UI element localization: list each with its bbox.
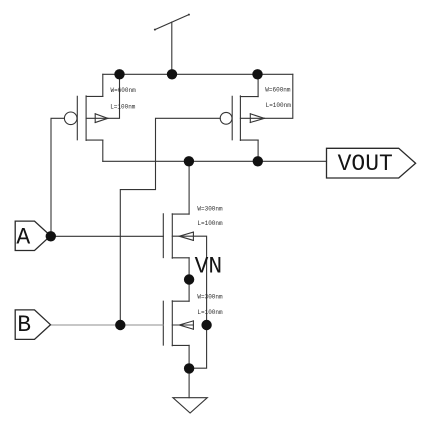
wire M1 drain drop xyxy=(102,140,104,161)
wire VDD rail xyxy=(103,73,293,75)
svg-text:L=100nm: L=100nm xyxy=(197,309,223,316)
port A xyxy=(15,221,50,250)
transistor M2 (PMOS) xyxy=(220,96,264,140)
wire node A riser to M1 gate xyxy=(51,118,64,236)
ground node dot xyxy=(184,363,194,373)
wire node B horizontal to M4 gate xyxy=(51,324,164,326)
wire M2 drain drop xyxy=(257,140,259,161)
ground xyxy=(173,398,207,413)
svg-text:A: A xyxy=(16,225,30,251)
svg-text:L=100nm: L=100nm xyxy=(266,102,292,109)
svg-text:L=100nm: L=100nm xyxy=(197,220,223,227)
wire M4 source drop xyxy=(188,345,190,368)
port B xyxy=(15,310,50,340)
svg-text:W=600nm: W=600nm xyxy=(265,86,291,93)
wire node B riser to M2 gate xyxy=(120,118,220,325)
svg-text:VN: VN xyxy=(195,254,223,280)
svg-text:W=300nm: W=300nm xyxy=(197,294,223,301)
node A dot xyxy=(46,231,56,241)
wire M3 source to M4 drain (node VN) xyxy=(188,258,190,301)
M4 bulk dot xyxy=(201,320,211,330)
transistor M1 (PMOS) xyxy=(64,96,107,140)
wire M2 source riser xyxy=(257,74,259,96)
wire rail left drop to M1 source xyxy=(102,74,104,96)
svg-text:L=100nm: L=100nm xyxy=(110,104,136,111)
VDD rail dot 1 xyxy=(114,69,124,79)
wire M3 drain riser to output xyxy=(188,161,190,214)
power VDD symbol xyxy=(154,14,190,75)
wire ground lead xyxy=(188,368,190,398)
port VOUT xyxy=(327,148,416,178)
output rail dot right xyxy=(253,156,263,166)
output rail dot left xyxy=(184,156,194,166)
svg-text:W=600nm: W=600nm xyxy=(111,87,137,94)
wire M3 bulk line xyxy=(193,236,206,325)
node B dot xyxy=(115,320,125,330)
wire rail right drop to M2 bulk xyxy=(264,74,293,118)
svg-text:VOUT: VOUT xyxy=(338,151,393,177)
svg-text:B: B xyxy=(17,312,31,338)
transistor M4 (NMOS) xyxy=(163,301,193,346)
svg-text:W=300nm: W=300nm xyxy=(197,205,223,212)
wire output rail to VOUT xyxy=(103,160,327,162)
transistor M3 (NMOS) xyxy=(163,214,193,258)
node VN dot xyxy=(184,274,194,284)
wire M1 bulk to rail xyxy=(108,74,120,118)
VDD rail dot 2 xyxy=(167,69,177,79)
VDD rail dot 3 xyxy=(252,69,262,79)
wire node A horizontal to M3 gate xyxy=(51,235,164,237)
wire M4 bulk to source node xyxy=(189,325,207,368)
